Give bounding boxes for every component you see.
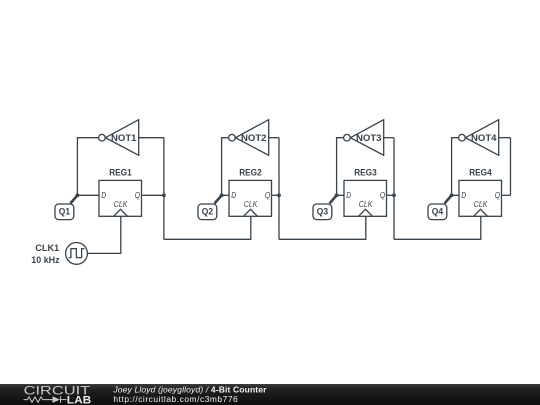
wire right vertical of stage 2 down to clock bus xyxy=(278,138,280,240)
junction at REG2 Q node xyxy=(277,193,281,197)
svg-text:Q: Q xyxy=(135,190,141,200)
junction at REG3 D node xyxy=(335,193,339,197)
wire REG4 Q output to right vertical xyxy=(502,194,511,196)
svg-text:CLK: CLK xyxy=(359,199,374,209)
svg-text:http://circuitlab.com/c3mb776: http://circuitlab.com/c3mb776 xyxy=(113,394,238,404)
svg-text:NOT2: NOT2 xyxy=(241,133,267,143)
wire right vertical of stage 4 xyxy=(510,138,512,196)
inverter NOT3 xyxy=(344,120,384,156)
wire NOT2 input from right vertical xyxy=(269,137,279,139)
svg-text:NOT1: NOT1 xyxy=(111,133,137,143)
node flag Q3 xyxy=(313,195,337,219)
CircuitLab logo circuit glyph (resistor + diode) xyxy=(24,396,67,403)
D flip-flop REG4 body xyxy=(459,180,502,216)
wire right vertical of stage 1 down to clock bus xyxy=(163,138,165,240)
inverter NOT1 xyxy=(99,120,139,156)
svg-text:D: D xyxy=(346,190,351,200)
wire NOT1 output feedback to REG1 D input xyxy=(77,138,99,196)
svg-text:REG4: REG4 xyxy=(469,168,492,178)
svg-text:LAB: LAB xyxy=(67,395,92,405)
svg-text:Q1: Q1 xyxy=(59,206,70,216)
D flip-flop REG3 body xyxy=(344,180,387,216)
svg-text:REG3: REG3 xyxy=(354,168,377,178)
wire clock bus stage 3 Q to REG4 CLK xyxy=(394,216,481,239)
node flag Q4 xyxy=(428,195,452,219)
wire NOT2 output feedback to REG2 D input xyxy=(222,138,229,196)
junction at REG1 D node xyxy=(76,193,80,197)
node flag Q1 xyxy=(55,195,77,219)
wire clock bus stage 2 Q to REG3 CLK xyxy=(279,216,366,239)
svg-text:NOT3: NOT3 xyxy=(356,133,382,143)
svg-text:REG1: REG1 xyxy=(109,168,132,178)
svg-text:D: D xyxy=(231,190,236,200)
inverter NOT4 xyxy=(459,120,499,156)
wire right vertical of stage 3 down to clock bus xyxy=(393,138,395,240)
wire NOT4 input from right vertical xyxy=(499,137,511,139)
svg-text:Q: Q xyxy=(265,190,271,200)
wire NOT1 input from right vertical xyxy=(139,137,164,139)
svg-text:Joey Lloyd (joeyglloyd) / 4-Bi: Joey Lloyd (joeyglloyd) / 4-Bit Counter xyxy=(112,384,267,394)
svg-text:Q4: Q4 xyxy=(432,206,444,216)
inverter NOT2 xyxy=(229,120,269,156)
footer bar xyxy=(0,384,540,405)
svg-text:Q: Q xyxy=(380,190,386,200)
wire REG3 Q output to right vertical xyxy=(387,194,395,196)
junction at REG1 Q node xyxy=(162,193,166,197)
clock source CLK1 xyxy=(66,243,88,265)
svg-text:NOT4: NOT4 xyxy=(471,133,497,143)
wire NOT3 input from right vertical xyxy=(384,137,394,139)
svg-text:Q: Q xyxy=(495,190,501,200)
wire REG1 Q output to right vertical xyxy=(142,194,164,196)
svg-text:D: D xyxy=(461,190,466,200)
svg-text:D: D xyxy=(101,190,106,200)
D flip-flop REG2 body xyxy=(229,180,272,216)
svg-text:CLK: CLK xyxy=(474,199,489,209)
junction at REG2 D node xyxy=(220,193,224,197)
junction at REG4 D node xyxy=(450,193,454,197)
svg-text:CLK: CLK xyxy=(114,199,129,209)
svg-text:Q3: Q3 xyxy=(317,206,328,216)
svg-text:10 kHz: 10 kHz xyxy=(31,255,59,266)
D flip-flop REG1 body xyxy=(99,180,142,216)
svg-text:REG2: REG2 xyxy=(239,168,262,178)
svg-text:Q2: Q2 xyxy=(202,206,213,216)
wire NOT4 output feedback to REG4 D input xyxy=(452,138,459,196)
node flag Q2 xyxy=(198,195,222,219)
wire NOT3 output feedback to REG3 D input xyxy=(337,138,344,196)
wire REG2 Q output to right vertical xyxy=(272,194,280,196)
svg-text:CLK1: CLK1 xyxy=(35,243,60,254)
svg-text:CLK: CLK xyxy=(244,199,259,209)
wire clock bus stage 1 Q to REG2 CLK xyxy=(164,216,251,239)
junction at REG3 Q node xyxy=(392,193,396,197)
wire CLK1 output to REG1 CLK pin xyxy=(87,216,120,253)
